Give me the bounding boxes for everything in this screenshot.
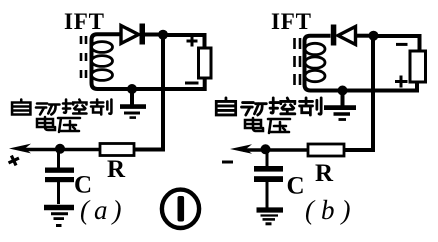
text 电压 (right line 2) [245,118,290,133]
char 制 [300,98,322,115]
figure number circle 1 [162,190,199,228]
ground stub (left tank) [130,89,134,105]
char 动 [36,104,59,115]
wire node to load resistor top (left) [163,35,205,48]
label C (left) [74,172,92,199]
svg-text:(b): (b) [305,195,357,225]
svg-text:(a): (a) [80,195,126,225]
char 控 [270,98,295,114]
label C (right) [287,173,305,200]
label (b) [305,195,357,225]
svg-text:IFT: IFT [271,9,311,34]
char 电 [37,117,55,130]
ground symbol (right tank) [324,108,356,120]
char 压 [268,119,290,133]
wire diode to node [145,33,160,37]
output wire to arrow (right) [243,148,308,151]
ground symbol below C2 (right) [257,210,284,224]
svg-text:IFT: IFT [64,9,104,34]
capacitor C1 plates (left) [45,168,74,183]
node B (junction dot after diode, right) [369,31,379,41]
arrowhead output (right) [230,144,252,154]
char 压 [58,118,80,132]
inductor L1 coil turns (left) [92,42,113,81]
wire capacitor to ground (right) [266,182,269,208]
plus sign at output (left) [6,153,21,168]
minus sign at load (right) [396,43,408,46]
char 动 [242,103,267,115]
wire node to load resistor top (right) [374,36,420,51]
load resistor (left, vertical box) [199,48,212,78]
ground stub (right tank) [341,91,345,106]
ground symbol below C1 (left) [44,208,74,226]
wire diode to node (right) [356,34,371,38]
text 自动控制 (left line 1) [12,100,111,115]
junction dot at capacitor C2 (right) [261,144,271,154]
transformer core (left, dashed lines) [81,36,86,79]
svg-text:R: R [315,160,334,187]
ground symbol (left tank) [120,107,146,118]
tank loop wire (left secondary winding loop) [92,34,205,89]
transformer core (right, dashed lines) [295,38,301,86]
label IFT (right transformer) [271,9,311,34]
capacitor C2 plates (right) [254,166,283,182]
svg-text:R: R [107,156,126,183]
minus sign at output (right) [222,161,233,164]
char 自 [216,98,235,115]
vertical output wire from node A down to R (left) [134,35,163,150]
label R (left) [107,156,126,183]
resistor R1 (left, horizontal box) [100,144,134,156]
char 制 [91,100,111,115]
char 电 [245,118,263,131]
plus sign at load (left) [187,36,198,47]
text 自动控制 (right line 1) [216,98,321,115]
label R (right) [315,160,334,187]
wire capacitor to ground (left) [57,182,60,204]
char 自 [12,100,30,115]
tank loop wire (right secondary winding loop) [305,36,418,91]
diode D2 (cathode bar left, anode right - points left) [331,25,356,46]
diode D1 (anode left, cathode bar right) [121,24,145,45]
load resistor (right, vertical box) [410,51,426,82]
plus sign at load (right) [395,76,408,88]
vertical output wire from node B down to R (right) [344,36,373,150]
text 电压 (left line 2) [37,117,80,132]
node A (junction dot after diode, left) [158,30,168,40]
ground junction dot on tank bottom (left) [127,84,137,94]
label IFT (left transformer) [64,9,104,34]
label (a) [80,195,126,225]
inductor L2 coil turns (right) [305,43,325,81]
wire to capacitor (left) [57,149,60,168]
junction dot at capacitor C1 (left) [55,144,65,154]
svg-text:C: C [287,173,305,200]
wire to capacitor (right) [266,150,269,167]
resistor R2 (right, horizontal box) [308,144,344,156]
output wire to arrow (left) [22,148,100,151]
arrowhead output (left) [9,144,31,154]
minus sign at load (left) [185,82,199,85]
char 控 [63,100,86,114]
ground junction dot on tank bottom (right) [338,86,348,96]
